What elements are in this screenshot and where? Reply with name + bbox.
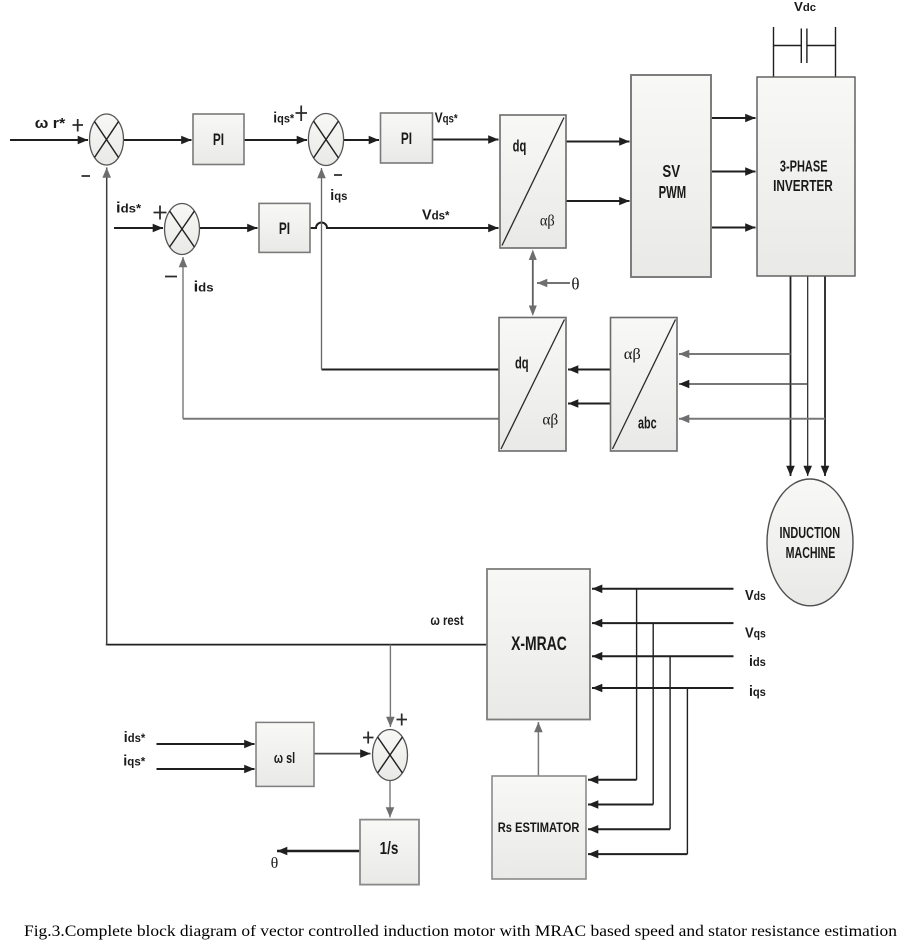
svg-text:abc: abc (638, 414, 657, 433)
svg-text:dq: dq (515, 354, 529, 373)
svg-text:iqs*: iqs* (273, 110, 294, 127)
svg-text:iqs*: iqs* (123, 753, 145, 769)
svg-text:1/s: 1/s (380, 839, 399, 858)
svg-text:PI: PI (401, 130, 412, 149)
svg-text:θ: θ (271, 855, 279, 872)
svg-text:3-PHASE: 3-PHASE (780, 158, 828, 175)
svg-text:Fig.3.Complete block diagram o: Fig.3.Complete block diagram of vector c… (24, 922, 897, 940)
svg-text:INDUCTION: INDUCTION (779, 524, 840, 541)
svg-text:Vdc: Vdc (794, 0, 816, 14)
svg-text:Vqs*: Vqs* (435, 109, 459, 126)
svg-text:ids: ids (749, 654, 766, 671)
svg-text:θ: θ (571, 275, 579, 294)
svg-text:Rs ESTIMATOR: Rs ESTIMATOR (498, 820, 580, 836)
svg-text:αβ: αβ (540, 212, 555, 230)
svg-text:ids: ids (194, 279, 214, 295)
svg-text:Vds: Vds (745, 586, 766, 603)
svg-text:INVERTER: INVERTER (773, 178, 833, 195)
svg-text:Vqs: Vqs (745, 624, 766, 641)
svg-text:Vds*: Vds* (422, 207, 450, 223)
svg-text:ids*: ids* (124, 730, 146, 747)
svg-text:ω r*: ω r* (35, 115, 67, 131)
svg-text:ω sl: ω sl (274, 749, 295, 766)
svg-text:ω rest: ω rest (430, 613, 464, 628)
svg-text:PI: PI (213, 131, 224, 150)
svg-text:αβ: αβ (624, 345, 641, 363)
svg-text:PI: PI (279, 220, 290, 239)
svg-text:ids*: ids* (116, 200, 141, 216)
svg-text:X-MRAC: X-MRAC (511, 633, 567, 655)
svg-text:SV: SV (662, 162, 680, 181)
svg-text:iqs: iqs (330, 188, 347, 204)
svg-text:PWM: PWM (659, 182, 687, 202)
svg-text:αβ: αβ (542, 411, 558, 428)
svg-text:dq: dq (513, 137, 527, 156)
svg-text:iqs: iqs (749, 684, 766, 701)
svg-text:MACHINE: MACHINE (786, 544, 836, 561)
